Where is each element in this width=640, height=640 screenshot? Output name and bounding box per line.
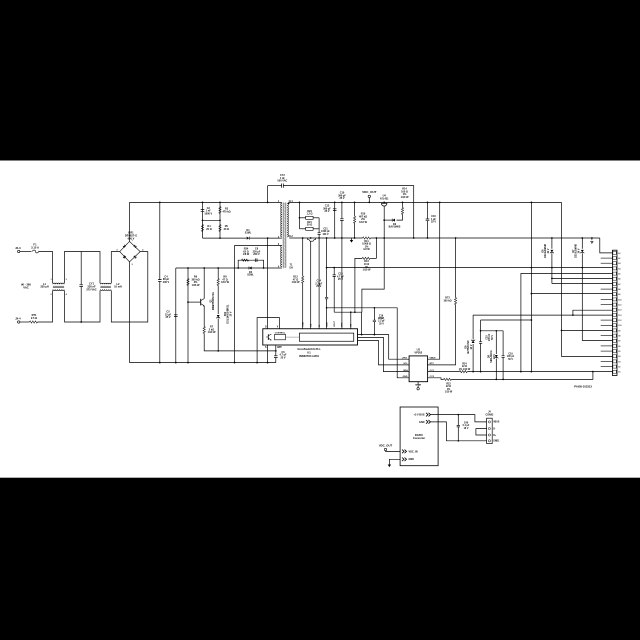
junction dots BPP wire: [217, 350, 219, 352]
svg-text:25 V: 25 V: [324, 210, 329, 213]
bridge diode top-right: [133, 245, 136, 248]
common-mode choke L1 core: [53, 286, 64, 287]
wire L1 pin3 up and right to CY1: [65, 252, 101, 284]
svg-text:uPD1: uPD1: [402, 358, 408, 360]
wire R10 bottom: [354, 223, 356, 238]
IC U1 control block: [275, 334, 286, 339]
capacitor C14 plates: [325, 297, 328, 299]
junction dots primary return: [175, 362, 177, 364]
wire D1 junction down to IC drain pin: [267, 238, 269, 329]
svg-text:C40: C40: [464, 422, 469, 425]
wire U4 cathode down: [383, 207, 385, 238]
wire connector stub B11: [601, 319, 613, 321]
wire CY1 column top: [80, 252, 82, 285]
label 90 - 260 VAC: [21, 283, 31, 290]
resistor R24: [459, 371, 467, 373]
label C8 220 pF 200 V: [253, 248, 261, 257]
resistor R14: [401, 208, 403, 215]
junction FB stub: [350, 311, 352, 313]
wire CY2 riser: [267, 186, 269, 203]
L1 bottom coil: [53, 289, 64, 290]
label R8 47 Ohm 1/10 W: [221, 276, 229, 285]
label T1 FL2: [289, 236, 294, 238]
label R34 62 Ohm 1/8 W: [243, 248, 250, 257]
terminal U3 test point: [417, 388, 419, 390]
wire J4 data short: [476, 429, 487, 435]
svg-text:100 V: 100 V: [322, 234, 329, 236]
svg-text:VBUS: VBUS: [493, 422, 500, 424]
svg-text:1/10 W: 1/10 W: [208, 331, 216, 334]
thermistor RT2: [455, 298, 457, 305]
junction CY1 bottom: [80, 321, 82, 323]
label PI-905-102313: [574, 385, 592, 389]
resistor R22: [444, 378, 452, 380]
svg-text:B6: B6: [618, 346, 620, 348]
IC U1 dashed isolation link: [286, 336, 300, 338]
svg-text:B12: B12: [618, 315, 621, 317]
label U3 pin SCL: [403, 363, 408, 365]
wire connector stub A8: [601, 288, 613, 290]
svg-text:A1: A1: [618, 252, 620, 255]
svg-text:B8: B8: [618, 336, 620, 338]
wire connector stub A10: [601, 298, 613, 300]
wire bridge plus to primary rail: [129, 202, 131, 241]
ground flag on secondary return: [351, 238, 353, 240]
svg-text:25 V: 25 V: [431, 221, 436, 224]
junction dots C2 R3 top: [202, 202, 204, 204]
svg-text:3.15 A: 3.15 A: [31, 245, 39, 249]
wire IC uVCC pin wire: [358, 335, 410, 360]
svg-text:BAV19WS: BAV19WS: [389, 226, 401, 229]
wire CY2 left segment: [268, 185, 282, 187]
wire D1 anode segment: [203, 237, 247, 239]
resistor R8: [217, 279, 219, 286]
capacitor C16 plates: [426, 219, 430, 221]
label C5 15 uF 25 V: [165, 311, 172, 320]
wire D9 column: [495, 331, 497, 354]
label U1: [307, 351, 311, 355]
wire IC source pin to primary return: [267, 345, 269, 363]
wire D9 bottom: [495, 359, 497, 380]
label CY1 330 nF 275 VAC: [86, 282, 96, 292]
label L1 pin digits: [50, 279, 51, 281]
junction column 531: [531, 202, 533, 204]
label U1 InnoSwitch3-Pro: [298, 347, 321, 351]
label C40 0.1 uF 16 V: [463, 422, 470, 430]
label L1 pin digit 4: [66, 293, 68, 296]
wire R8 to ZD1: [217, 286, 219, 315]
wire D6 bottom: [551, 253, 553, 283]
junction C21 rail: [318, 237, 320, 239]
svg-text:INN3370C-H301: INN3370C-H301: [299, 354, 319, 358]
wire tab to SG pin: [310, 241, 312, 329]
connector J2 pin pads and labels: [613, 251, 616, 254]
junction C40 top: [457, 414, 459, 416]
svg-text:VDC_OUT: VDC_OUT: [362, 190, 377, 194]
label U3 pin SDA: [403, 369, 408, 372]
wire cluster top 330.8: [481, 330, 504, 332]
svg-text:100 pF: 100 pF: [507, 356, 515, 358]
wire winding2 top pin to left: [235, 246, 282, 363]
wire R7 to BPP wire: [204, 334, 276, 351]
zener D8: [471, 340, 475, 343]
svg-text:2.2 µF: 2.2 µF: [378, 321, 385, 323]
bridge diode top-left: [123, 245, 126, 248]
svg-text:50 V: 50 V: [492, 335, 494, 340]
svg-text:VAC: VAC: [23, 286, 29, 290]
label J4 type: [486, 415, 494, 417]
wire Q1 base link: [188, 301, 201, 303]
L2 top coil: [100, 283, 110, 284]
wire VBUS net: [428, 202, 440, 359]
label BR1 pin 4: [142, 249, 144, 252]
wire B7 link: [582, 340, 612, 342]
label BR1 DF06S7-G 600 V: [125, 231, 137, 241]
wire C14 column: [326, 238, 328, 297]
svg-text:GND: GND: [409, 458, 415, 461]
shunt regulator U4 ATL431: [383, 201, 385, 204]
svg-text:R24: R24: [462, 363, 467, 366]
terminal VDC_OUT: [368, 195, 370, 197]
wire R8 ZD1 column top: [217, 268, 219, 279]
label BR1 pin 3: [132, 264, 134, 266]
capacitor C5 plates: [174, 315, 178, 317]
label D7 GS2 24 V: [573, 244, 580, 259]
wire RT2 top: [455, 238, 457, 298]
label R13 10 Ohm: [363, 260, 371, 271]
junction jog: [361, 334, 363, 336]
wire R12 to pin: [302, 283, 304, 329]
label JX-4: [15, 317, 21, 321]
label ZD1 EGL1M 20 V: [225, 304, 232, 323]
label D1 S1ML: [245, 229, 252, 235]
svg-text:200 V: 200 V: [253, 253, 260, 256]
junction C15 top: [333, 267, 335, 269]
svg-text:XPNB: XPNB: [415, 384, 421, 386]
bridge rectifier BR1 outline: [120, 241, 141, 261]
pin GND in chevrons: [402, 458, 407, 462]
label VDC_OUT: [362, 190, 377, 194]
svg-text:20 Ω: 20 Ω: [206, 228, 211, 231]
label J4 D-: [493, 428, 496, 430]
wire C11 below: [341, 221, 343, 329]
svg-text:A2: A2: [618, 257, 620, 260]
capacitor C8 plates: [255, 258, 257, 262]
label R21 20 Ohm: [307, 221, 313, 227]
svg-text:24 V: 24 V: [493, 354, 496, 359]
label GND out: [419, 421, 425, 424]
wire R3 column: [219, 202, 221, 238]
label CONTROL: [275, 332, 286, 334]
label R3 470 kOhm: [222, 208, 230, 214]
svg-text:24 V: 24 V: [547, 248, 550, 253]
label T1 FL1: [289, 201, 294, 203]
svg-text:B10: B10: [618, 325, 621, 327]
wire D1 cathode to T1 pin1: [250, 237, 282, 239]
wire JX-4 to RT1: [20, 321, 30, 323]
svg-text:SMAJ24CA: SMAJ24CA: [490, 350, 493, 363]
label R22 22 Ohm: [445, 384, 453, 394]
wire +5V BUS to J4 VBUS: [431, 415, 487, 422]
svg-text:ATL431: ATL431: [380, 197, 389, 200]
svg-text:25 V: 25 V: [338, 278, 343, 281]
wire connector stub B3: [601, 360, 613, 362]
svg-text:1/10 W: 1/10 W: [292, 281, 300, 284]
transformer T1 primary winding: [281, 203, 282, 237]
wire C40 column: [457, 415, 459, 426]
svg-text:MMBT5087LT1G: MMBT5087LT1G: [213, 292, 215, 310]
svg-text:EH: EH: [290, 266, 294, 269]
svg-text:A9: A9: [618, 293, 620, 296]
svg-text:Converter: Converter: [413, 436, 425, 440]
wire bias winding return: [176, 267, 282, 269]
label D3 BAV19WS: [389, 223, 401, 229]
svg-text:BZT52C3V9: BZT52C3V9: [468, 340, 470, 354]
svg-text:A5: A5: [618, 273, 620, 276]
svg-text:B11: B11: [618, 320, 621, 322]
capacitor C4 plates: [158, 280, 162, 282]
wire connector stub B6: [601, 345, 613, 347]
label J4 VBUS: [493, 422, 500, 424]
wire R12 column: [302, 238, 304, 276]
wire A4 rail: [327, 267, 613, 269]
wire Q1 collector: [203, 268, 205, 299]
wire FB horizontal: [334, 311, 361, 313]
svg-text:25 V: 25 V: [280, 356, 285, 359]
svg-text:GND: GND: [419, 421, 425, 424]
junction CY2 riser on rail: [267, 202, 269, 204]
label U3 pin GND: [403, 376, 408, 378]
label C20 100 nF 50 V: [487, 333, 494, 341]
junction C17: [374, 307, 376, 309]
junction FL link: [299, 202, 301, 204]
svg-text:A11: A11: [618, 304, 621, 307]
wire primary return rail: [130, 362, 276, 364]
svg-text:GND1: GND1: [493, 441, 500, 443]
wire secondary return rail right: [371, 237, 600, 239]
junction D8 CC1: [472, 371, 474, 373]
svg-text:500 VAC: 500 VAC: [278, 180, 288, 183]
connector J2 body: [612, 250, 617, 375]
svg-text:1/10 W: 1/10 W: [401, 196, 409, 199]
label C15 4.7 uF 25 V: [337, 273, 345, 282]
svg-text:GS2-E3/MHD: GS2-E3/MHD: [545, 244, 547, 259]
wire top link 320: [481, 319, 532, 321]
junction FL1: [288, 202, 290, 204]
wire C11 column: [341, 202, 343, 218]
svg-text:JX-4: JX-4: [15, 317, 21, 321]
diode D2: [249, 267, 252, 270]
junction column 561 B9: [561, 330, 563, 332]
label VDC_IN: [409, 450, 418, 453]
zener D6: [550, 250, 554, 253]
svg-text:24 V: 24 V: [470, 344, 473, 349]
transformer T1 bias winding: [281, 246, 282, 267]
wire clamp top path: [238, 260, 263, 268]
svg-text:InnoSwitch3-Pro: InnoSwitch3-Pro: [298, 347, 321, 351]
wire A9 link: [531, 293, 612, 295]
label pin BPP: [277, 347, 282, 349]
wire rail to A1: [600, 238, 613, 253]
wire A7 link: [552, 283, 613, 285]
svg-text:A10: A10: [618, 298, 621, 301]
wire A5 link: [521, 274, 613, 372]
wire U3 bottom stub: [417, 382, 419, 388]
junction A5 base: [520, 371, 522, 373]
wire C20 bottom: [480, 343, 482, 371]
svg-text:CONTROL: CONTROL: [275, 332, 286, 334]
svg-text:SCL: SCL: [403, 363, 408, 365]
capacitor C19 plates: [502, 356, 505, 358]
wire C40 bottom to gnd run: [457, 427, 459, 441]
label C2 1nF 1000V: [204, 207, 212, 216]
wire ZD1 to BPP wire: [217, 319, 219, 351]
wire C13 column: [334, 202, 336, 238]
label R11 0.009 Ohm: [362, 240, 371, 251]
label RT2 100 kOhm: [443, 297, 451, 303]
label XPNB: [415, 384, 421, 386]
label T1 pin3: [278, 244, 280, 246]
wire C19 bottom: [502, 357, 504, 379]
wire CC2 run: [452, 372, 593, 380]
capacitor C6 plates: [274, 356, 278, 358]
svg-text:B2: B2: [618, 367, 620, 369]
svg-text:B3: B3: [618, 361, 620, 363]
label D2 S1ML: [247, 271, 254, 277]
svg-text:1/2 W: 1/2 W: [363, 248, 370, 251]
junction R13 tap: [376, 237, 378, 239]
thermistor RT1: [30, 321, 38, 323]
wire bridge minus down to primary return: [129, 262, 131, 363]
capacitor C21 plates: [318, 233, 321, 235]
wire R23 left lead: [300, 217, 306, 219]
label T1: [290, 264, 294, 270]
wire GND pin to ground: [389, 459, 400, 462]
pin GND chevrons: [426, 420, 431, 424]
label L1 pin digit 2: [50, 294, 51, 296]
capacitor CY2 plates: [282, 184, 284, 188]
junction C20 CC1: [480, 371, 482, 373]
label R6 300 kOhm: [191, 276, 200, 287]
label Q1 MMBT5087LT1G: [211, 292, 216, 310]
junction D6: [551, 237, 553, 239]
label U3 pin CC1: [430, 370, 435, 372]
svg-text:B7: B7: [618, 341, 620, 343]
wire FB pin stub: [350, 312, 352, 329]
svg-text:1000 V: 1000 V: [204, 212, 212, 215]
terminal JX-3: [18, 250, 20, 252]
transformer T1 core: [283, 202, 286, 267]
svg-text:400 V: 400 V: [163, 281, 170, 284]
wire bulk capacitor C4 column bottom: [159, 281, 161, 362]
label R24 22 Ohm: [459, 363, 471, 371]
diode D3: [392, 219, 395, 222]
wire L1 pin4 to L2 bottom: [65, 290, 101, 322]
wire L2 pin4 to bridge right: [111, 252, 148, 322]
wire IC SCL pin wire: [358, 341, 410, 365]
label D6 GS2 24 V: [543, 244, 550, 259]
label U3 part: [414, 351, 422, 355]
junction A12 tap: [572, 314, 574, 316]
junction VDC_OUT: [368, 202, 370, 204]
wire primary B+ rail: [130, 201, 282, 203]
wire D7 bottom: [581, 253, 583, 340]
wire bias rail left end down C5: [175, 268, 177, 363]
label GND in: [409, 458, 415, 461]
wire C16 column: [427, 202, 429, 219]
net-tie tab symbol on return rail: [308, 238, 316, 241]
svg-text:PI-905-102313: PI-905-102313: [574, 385, 592, 389]
label C16 1 uF 25 V: [431, 215, 436, 224]
svg-text:VOUT: VOUT: [334, 320, 336, 327]
zener D7: [580, 250, 584, 253]
wire Q1 emitter to R7: [203, 306, 205, 327]
wire connector stub B10: [601, 324, 613, 326]
label J4: [488, 410, 491, 413]
wire connector stub B8: [601, 335, 613, 337]
svg-text:100 kΩ: 100 kΩ: [443, 299, 451, 302]
label C6 4.7 uF 25 V: [279, 351, 287, 360]
box resistor R21: [306, 227, 313, 230]
junction RT2 rail: [455, 237, 457, 239]
capacitor C11 plates: [340, 219, 344, 221]
junction C13 top: [334, 202, 336, 204]
svg-text:1000 pF: 1000 pF: [321, 231, 330, 233]
svg-text:C21: C21: [323, 229, 328, 231]
capacitor C15 plates: [333, 275, 336, 277]
junction C14 A4 rail: [326, 267, 328, 269]
IC U1 secondary block inner box: [299, 333, 353, 341]
svg-text:D-: D-: [493, 428, 496, 430]
resistor R10: [354, 216, 356, 223]
svg-text:C20: C20: [487, 335, 489, 340]
label J4 GND1: [493, 441, 500, 443]
svg-text:VDC_IN: VDC_IN: [409, 450, 418, 453]
label U3 pin NTC: [430, 363, 435, 365]
svg-text:A6: A6: [618, 278, 620, 281]
label C19 100 pF 50 V: [507, 354, 515, 361]
capacitor C17 plates: [373, 320, 376, 322]
resistor R6: [187, 279, 189, 286]
wire column 531 down: [530, 202, 532, 371]
terminal VDC_OUT bottom: [384, 448, 386, 450]
wire D8 column: [472, 344, 474, 372]
junction VBUS rail: [439, 202, 441, 204]
label C17 2.2 uF 25 V: [378, 318, 385, 325]
resistor R13: [362, 257, 370, 259]
svg-text:C17: C17: [379, 318, 384, 320]
wire CC1 to connector B1: [467, 371, 612, 373]
label U3 pin CC2: [430, 376, 435, 378]
zener ZD1: [216, 315, 220, 318]
connector J4 body: [487, 418, 493, 443]
junction C16: [427, 202, 429, 204]
svg-text:100 nF: 100 nF: [489, 333, 491, 341]
wire R6 column: [187, 268, 189, 363]
label pin S: [265, 347, 267, 349]
capacitor CY1 plates: [79, 285, 83, 287]
svg-text:470 kΩ: 470 kΩ: [222, 210, 230, 213]
svg-text:10 mH: 10 mH: [114, 285, 122, 289]
label T1 pin4: [278, 266, 280, 269]
label pin V: [277, 327, 279, 329]
label pin D: [265, 327, 267, 329]
svg-text:1/8 W: 1/8 W: [243, 253, 250, 256]
svg-text:VP302: VP302: [414, 351, 422, 355]
wire D6 column: [551, 238, 553, 249]
wire connector stub A2: [601, 257, 613, 259]
wire C15 down to feedback node: [333, 276, 335, 312]
